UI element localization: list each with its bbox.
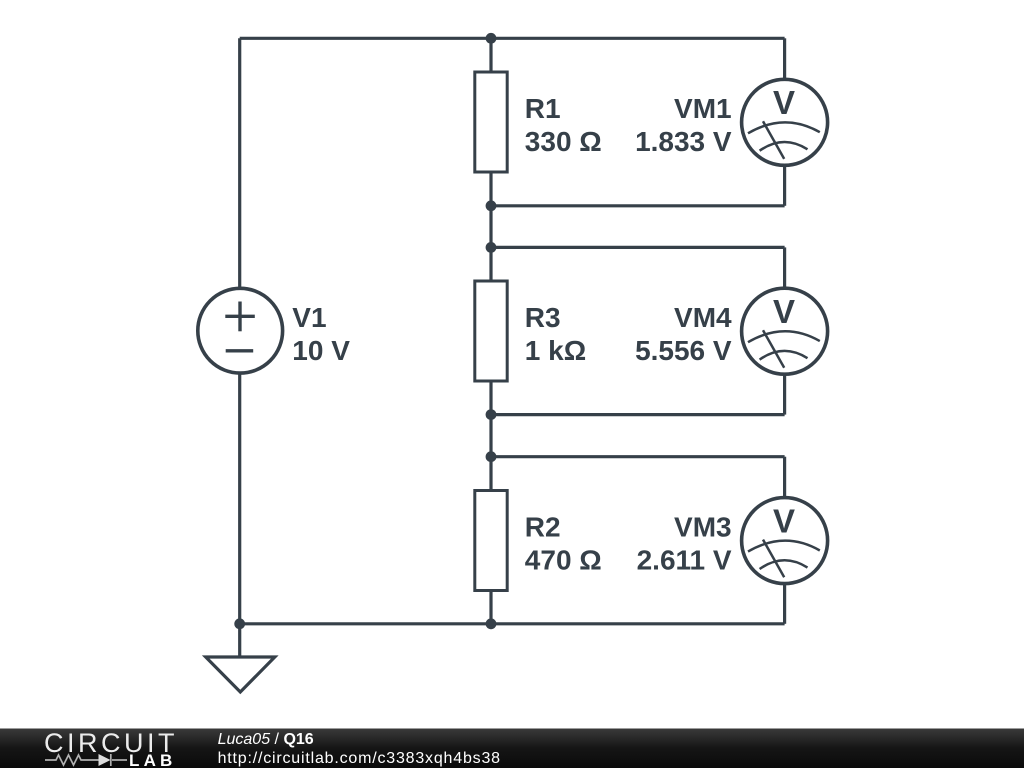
wire R3 top stub	[489, 247, 492, 281]
resistor R2	[475, 491, 507, 591]
svg-text:Luca05 / Q16: Luca05 / Q16	[218, 731, 314, 748]
svg-text:1 kΩ: 1 kΩ	[525, 335, 586, 366]
wire VM4 bottom stub	[783, 374, 786, 415]
wire loop2 bottom	[491, 413, 785, 416]
node R2 bottom	[486, 618, 497, 629]
node loop3 top	[486, 451, 497, 462]
wire loop1 bottom	[491, 204, 785, 207]
resistor R1	[475, 72, 507, 172]
wire VM4 top stub	[783, 247, 786, 288]
svg-text:V: V	[773, 84, 795, 121]
wire loop3 top	[491, 455, 785, 458]
svg-text:470 Ω: 470 Ω	[525, 545, 602, 576]
wire node1-node2	[489, 206, 492, 248]
voltmeter VM4	[742, 288, 828, 374]
svg-text:1.833 V: 1.833 V	[635, 126, 732, 157]
wire VM3 bottom stub	[783, 584, 786, 624]
label V1 value	[292, 302, 350, 366]
wire ground stub	[238, 624, 241, 657]
wire R1 bottom stub	[489, 172, 492, 206]
wire R1 top stub	[489, 38, 492, 72]
svg-text:5.556 V: 5.556 V	[635, 335, 732, 366]
svg-text:V: V	[773, 293, 795, 330]
logo diode triangle	[99, 754, 111, 766]
svg-text:VM4: VM4	[674, 302, 732, 333]
svg-text:2.611 V: 2.611 V	[637, 545, 732, 576]
wire left rail upper	[238, 38, 241, 288]
node loop2 top	[486, 242, 497, 253]
svg-text:330 Ω: 330 Ω	[525, 126, 602, 157]
svg-text:LAB: LAB	[129, 751, 177, 768]
label R2 value	[525, 512, 602, 576]
wire R3 bottom stub	[489, 381, 492, 415]
wire loop2 top	[491, 246, 785, 249]
resistor R3	[475, 281, 507, 381]
svg-text:V: V	[773, 502, 795, 539]
label VM4 value	[635, 302, 732, 366]
svg-text:R1: R1	[525, 93, 561, 124]
label VM1 value	[635, 93, 732, 157]
wire VM1 top stub	[783, 38, 786, 79]
label VM3 value	[637, 512, 732, 576]
wire bottom rail	[240, 622, 785, 625]
node R1 bottom	[486, 200, 497, 211]
label R3 value	[525, 302, 586, 366]
ground	[206, 657, 275, 692]
wire node3-node4	[489, 415, 492, 457]
node ground junction	[234, 618, 245, 629]
svg-text:VM1: VM1	[674, 93, 732, 124]
logo resistor-diode symbol	[45, 754, 127, 766]
svg-text:10 V: 10 V	[292, 335, 350, 366]
wire VM1 bottom stub	[783, 165, 786, 206]
voltmeter VM1	[742, 79, 828, 165]
label R1 value	[525, 93, 602, 157]
voltmeter VM3	[742, 498, 828, 584]
wire R2 bottom stub	[489, 591, 492, 624]
node top junction	[486, 33, 497, 44]
svg-text:VM3: VM3	[674, 512, 732, 543]
wire R2 top stub	[489, 457, 492, 491]
wire VM3 top stub	[783, 457, 786, 498]
svg-text:R3: R3	[525, 302, 561, 333]
wire top rail	[240, 37, 785, 40]
footer bar	[0, 729, 1024, 768]
voltage source V1	[198, 288, 283, 373]
node R3 bottom	[486, 409, 497, 420]
svg-text:V1: V1	[292, 302, 326, 333]
svg-text:http://circuitlab.com/c3383xqh: http://circuitlab.com/c3383xqh4bs38	[218, 750, 501, 767]
svg-text:R2: R2	[525, 512, 561, 543]
wire left rail lower	[238, 373, 241, 624]
